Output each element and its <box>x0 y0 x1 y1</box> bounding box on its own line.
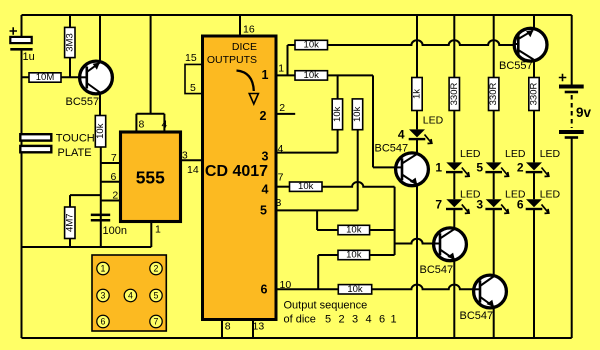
wire 4017 pin 3 stub <box>276 130 358 231</box>
svg-text:BC557: BC557 <box>66 96 100 108</box>
svg-text:1k: 1k <box>412 89 423 99</box>
resistor 10k A (pin1 to BC557 base, hop wire) <box>288 40 515 76</box>
svg-text:LED: LED <box>505 148 526 160</box>
resistor 330R (col3) <box>488 78 499 111</box>
transistor BC557 (right, PNP) <box>499 28 547 72</box>
wire 4017 pin 7 stub <box>276 186 289 188</box>
svg-text:3: 3 <box>101 291 106 301</box>
svg-text:1: 1 <box>155 224 161 236</box>
svg-text:330R: 330R <box>449 83 460 106</box>
wire column 4 (x534) <box>533 15 535 338</box>
wire column 1 (x417) <box>416 15 418 338</box>
svg-text:10k: 10k <box>304 70 320 81</box>
wire bottom rail <box>22 337 572 339</box>
svg-text:13: 13 <box>253 321 265 333</box>
svg-text:DICE: DICE <box>232 41 257 53</box>
resistor 10k (collector of BC557) <box>95 116 106 248</box>
svg-text:CD 4017: CD 4017 <box>205 163 268 180</box>
svg-text:10k: 10k <box>352 106 363 122</box>
svg-text:5: 5 <box>190 82 196 94</box>
svg-text:16: 16 <box>243 24 255 36</box>
svg-text:LED: LED <box>540 148 561 160</box>
svg-text:BC547: BC547 <box>375 143 409 155</box>
svg-text:10M: 10M <box>36 72 55 83</box>
wire 4017 pin 1 stub <box>276 74 295 76</box>
svg-text:9v: 9v <box>576 105 592 120</box>
wire 555 pin3 to 4017 pin14 <box>181 149 203 176</box>
svg-text:10k: 10k <box>304 40 320 51</box>
svg-text:7: 7 <box>111 152 117 164</box>
svg-text:4: 4 <box>278 143 284 155</box>
touch plate <box>20 133 94 159</box>
svg-text:14: 14 <box>187 164 199 176</box>
resistor 10k vertical (pin4 net) <box>332 75 343 129</box>
LED 5 <box>476 148 526 177</box>
op-amp/timer U1 555 <box>110 15 180 236</box>
svg-text:Output sequence: Output sequence <box>284 300 368 312</box>
LED row 1: LED 1 <box>435 148 481 177</box>
svg-text:3: 3 <box>182 149 188 161</box>
svg-text:10k: 10k <box>347 284 363 295</box>
transistor Q1 BC557 (left, PNP) <box>66 15 113 116</box>
svg-text:555: 555 <box>136 168 165 188</box>
resistor 330R (col2) <box>449 78 460 111</box>
4017 output stubs and pin numbers <box>276 75 358 289</box>
svg-text:10k: 10k <box>332 106 343 122</box>
wire top rail <box>22 14 572 16</box>
svg-text:1: 1 <box>278 63 284 75</box>
resistor 10k (pin7 net) with hop <box>290 181 435 255</box>
svg-text:4: 4 <box>398 128 405 142</box>
svg-text:5: 5 <box>476 161 483 175</box>
svg-text:10: 10 <box>280 279 292 291</box>
svg-text:3: 3 <box>262 150 269 164</box>
svg-text:LED: LED <box>460 148 481 160</box>
resistor 10k vertical (pin3 net) <box>352 99 363 130</box>
svg-text:2: 2 <box>517 161 524 175</box>
dice pattern box <box>92 255 166 331</box>
capacitor 100n <box>91 214 127 237</box>
svg-text:7: 7 <box>154 317 159 327</box>
svg-text:3: 3 <box>276 197 282 209</box>
svg-text:4: 4 <box>262 183 269 197</box>
capacitor C1 1u electrolytic <box>10 27 35 63</box>
svg-text:BC547: BC547 <box>460 310 494 322</box>
svg-text:4: 4 <box>128 291 133 301</box>
svg-text:7: 7 <box>278 172 284 184</box>
resistor 10k (pin10 to Q2 base net) <box>318 250 394 261</box>
wire 555 left pin stubs and bus <box>22 163 152 247</box>
svg-text:6: 6 <box>517 197 524 211</box>
wire 555 pin 7 stub <box>101 162 121 164</box>
resistor 3M3 <box>64 15 75 77</box>
svg-text:of dice: of dice <box>284 314 316 326</box>
svg-text:8: 8 <box>225 321 231 333</box>
svg-text:7: 7 <box>435 197 442 211</box>
svg-text:6: 6 <box>101 317 106 327</box>
resistor 1k <box>412 78 423 111</box>
svg-text:4M7: 4M7 <box>64 213 75 231</box>
wire left rail <box>21 15 23 338</box>
svg-text:OUTPUTS: OUTPUTS <box>207 54 257 66</box>
svg-text:15: 15 <box>185 52 197 64</box>
svg-text:10k: 10k <box>95 123 106 139</box>
svg-text:3M3: 3M3 <box>64 33 75 51</box>
svg-text:10k: 10k <box>298 181 314 192</box>
svg-text:BC547: BC547 <box>420 264 454 276</box>
svg-text:1: 1 <box>101 264 106 274</box>
wire 555 pin 1 to 0V rail <box>22 222 152 248</box>
LED 4 <box>398 115 444 144</box>
LED row 2: LED 7 <box>435 188 481 213</box>
battery 9v <box>559 74 592 139</box>
svg-text:2: 2 <box>112 190 118 202</box>
wire 4017 pin 10 stub <box>276 255 338 289</box>
svg-text:330R: 330R <box>488 83 499 106</box>
wire battery column <box>571 15 573 338</box>
LED 2 <box>517 148 561 177</box>
svg-text:1: 1 <box>435 161 442 175</box>
transistor Q3 BC547 (NPN, middle) <box>420 228 467 276</box>
LED 6 <box>517 188 561 213</box>
wire column 3 (x493.7) <box>493 15 495 338</box>
resistor 10k (pin3 to Q2 base) <box>317 225 395 236</box>
svg-text:4: 4 <box>161 119 167 131</box>
svg-text:2: 2 <box>279 102 285 114</box>
svg-text:6: 6 <box>110 171 116 183</box>
svg-text:5: 5 <box>260 204 267 218</box>
resistor 10k (pin10 to Q3 base) with hops <box>338 284 473 295</box>
wire 555 pin 6 stub <box>101 181 121 183</box>
svg-text:8: 8 <box>138 119 144 131</box>
svg-text:10k: 10k <box>346 225 362 236</box>
svg-text:2: 2 <box>260 109 267 123</box>
wire 4017 pin 4 stub <box>276 130 337 153</box>
wire 555 pin 2 stub <box>101 200 121 202</box>
svg-text:6: 6 <box>261 282 268 296</box>
svg-text:LED: LED <box>540 188 561 200</box>
svg-text:100n: 100n <box>103 225 127 237</box>
svg-text:BC557: BC557 <box>499 60 533 72</box>
resistor 330R (col4) <box>529 78 540 111</box>
svg-text:TOUCH: TOUCH <box>56 133 95 145</box>
IC U2 CD4017 <box>185 15 276 338</box>
wire 4017 pin 2 stub <box>276 113 295 115</box>
svg-text:10k: 10k <box>346 250 362 261</box>
svg-text:1u: 1u <box>23 51 35 63</box>
transistor Q2 BC547 (NPN, top) <box>396 153 429 186</box>
transistor Q4 BC547 (NPN, bottom) <box>460 275 507 322</box>
resistor 10M <box>22 72 81 83</box>
svg-text:1: 1 <box>262 68 269 82</box>
svg-text:2: 2 <box>154 264 159 274</box>
resistor 4M7 <box>64 195 101 247</box>
LED 3 <box>476 188 526 213</box>
svg-text:5: 5 <box>154 291 159 301</box>
svg-text:PLATE: PLATE <box>58 147 92 159</box>
svg-text:3: 3 <box>476 197 483 211</box>
resistor 10k B (pin1 to Q BC547-1 base) <box>295 70 396 167</box>
wire column 2 (x454.3) <box>453 15 455 338</box>
svg-text:LED: LED <box>423 115 444 127</box>
svg-text:330R: 330R <box>529 83 540 106</box>
